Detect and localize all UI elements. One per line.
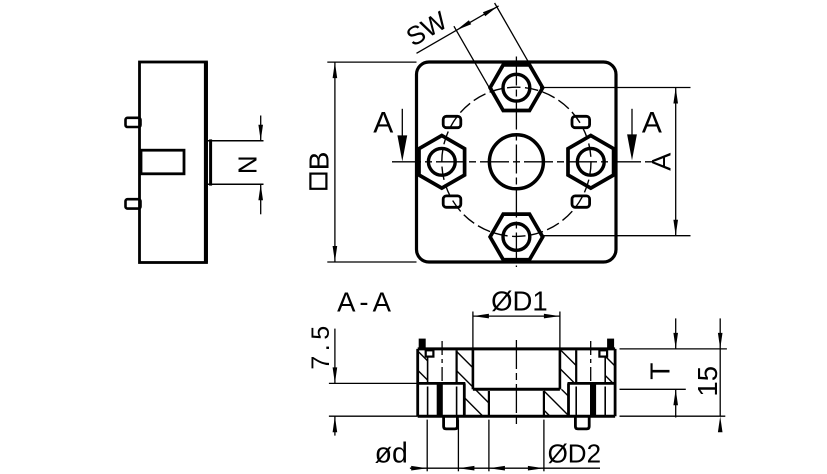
hex nut bottom hole xyxy=(503,224,530,251)
section: left hook notch xyxy=(426,350,434,356)
side view: boss top edge / extension line xyxy=(206,140,264,142)
dimension D2 extension right xyxy=(543,420,545,472)
hex nut right xyxy=(568,136,614,189)
hex nut right hole xyxy=(577,148,604,175)
dimension T line upper xyxy=(675,318,677,349)
section: right hole wall upper xyxy=(604,357,606,384)
hex nut left hole xyxy=(428,148,455,175)
section: left nut cut bar xyxy=(437,383,443,416)
dimension D1 extension right xyxy=(559,312,561,349)
section: left pocket wall xyxy=(463,383,466,416)
section: left hole centerline xyxy=(441,341,443,382)
dimension D2 arrow left xyxy=(489,466,505,471)
section: left outer edge xyxy=(416,349,419,416)
dimension 7.5 extension bottom xyxy=(329,415,418,417)
section: right hole centerline xyxy=(590,341,592,382)
dimension d extension left xyxy=(426,420,428,472)
svg-text:ØD2: ØD2 xyxy=(548,439,601,469)
svg-text:15: 15 xyxy=(692,366,723,397)
section marker left line xyxy=(401,109,403,137)
dimension N line upper xyxy=(260,116,262,141)
svg-text:A-A: A-A xyxy=(337,286,395,317)
section: left bottom boss xyxy=(444,416,458,429)
dimension SW arrow left xyxy=(456,20,471,30)
dimension D1 line xyxy=(473,315,560,317)
svg-text:A: A xyxy=(642,107,662,140)
hex nut left xyxy=(419,136,465,189)
dimension SW arrow right xyxy=(483,6,498,16)
section: cavity bottom xyxy=(473,388,560,391)
dimension 7.5 line upper xyxy=(334,329,336,384)
dimension SW extension line 1 xyxy=(454,26,489,87)
svg-text:N: N xyxy=(233,155,263,174)
hex nut bottom xyxy=(490,214,543,260)
side view: main body outline xyxy=(140,62,207,263)
front view: vertical centerline xyxy=(515,57,517,268)
dimension T arrow upper xyxy=(673,333,678,349)
dimension d arrow left xyxy=(411,466,427,471)
dimension 15 line xyxy=(719,318,721,416)
dimension 7.5 arrow lower xyxy=(333,416,338,432)
section: right hole wall lower b xyxy=(575,387,577,416)
section marker left arrowhead xyxy=(397,135,407,161)
dimension B line xyxy=(334,62,336,262)
svg-text:ød: ød xyxy=(375,437,408,469)
side view: notch rectangle xyxy=(141,150,184,174)
section: D2 bore right wall xyxy=(543,391,545,416)
section: right column wall xyxy=(575,350,577,383)
svg-text:ØD1: ØD1 xyxy=(491,286,548,317)
slot bottom-left xyxy=(443,196,461,207)
dimension 7.5 line lower xyxy=(334,416,336,435)
dimension d extension right xyxy=(457,420,459,472)
section: top face xyxy=(418,347,615,350)
side view: boss bottom edge / extension line xyxy=(206,183,264,185)
section: left hole wall lower a xyxy=(427,387,429,416)
section: right bottom boss xyxy=(575,416,589,429)
front view: square plate outline xyxy=(417,62,617,262)
section: right top tab xyxy=(608,340,613,349)
section: right outer edge xyxy=(614,349,617,416)
section marker right arrowhead xyxy=(627,134,637,160)
dimension d arrow right xyxy=(458,466,474,471)
section: main vertical centerline xyxy=(515,340,517,424)
dimension N arrow lower xyxy=(258,184,263,200)
dimension SW extension line 2 xyxy=(495,3,530,65)
dimension SW line xyxy=(417,6,499,53)
svg-text:T: T xyxy=(644,363,675,380)
dimension N line lower xyxy=(260,184,262,214)
dimension B label square symbol xyxy=(310,174,326,189)
side view: lower tab xyxy=(126,199,141,208)
section: right pocket top xyxy=(568,382,616,385)
dimension B arrow bottom xyxy=(333,246,338,262)
front view: central bore circle xyxy=(489,135,543,189)
dimension T/15 extension top xyxy=(620,348,727,350)
side view: upper tab xyxy=(126,118,141,127)
dimension B arrow top xyxy=(333,62,338,78)
section: left pocket top xyxy=(418,382,466,385)
section: left hole wall lower b xyxy=(456,387,458,416)
dimension 15 arrow upper xyxy=(718,333,723,349)
hex nut top hole xyxy=(503,74,530,101)
dimension 7.5 extension top xyxy=(329,382,418,384)
dimension D2 extension left xyxy=(488,420,490,472)
dimension A arrow top xyxy=(673,88,678,104)
dimension D1 extension left xyxy=(472,312,474,349)
dimension T extension bottom xyxy=(620,388,686,390)
section: left hole wall upper xyxy=(427,357,429,384)
slot top-right xyxy=(572,116,590,127)
dimension 15 arrow lower xyxy=(718,416,723,432)
section: right pocket wall xyxy=(567,383,570,416)
dimension B extension bottom xyxy=(327,261,416,263)
section: right hole wall lower a xyxy=(604,387,606,416)
section: cavity right wall xyxy=(559,349,562,389)
front view: dashed bolt circle xyxy=(442,87,591,236)
dimension D1 arrow left xyxy=(473,314,489,319)
section: left column wall xyxy=(456,350,458,383)
svg-text:7.5: 7.5 xyxy=(307,321,335,369)
dimension 15 extension bottom xyxy=(620,415,726,417)
section: cavity left wall xyxy=(472,349,475,389)
dimension N arrow upper xyxy=(258,125,263,141)
section: right hook notch xyxy=(599,350,607,356)
section: bottom face xyxy=(418,415,615,418)
dimension A arrow bottom xyxy=(673,220,678,236)
slot bottom-right xyxy=(572,196,590,207)
svg-text:B: B xyxy=(304,152,335,171)
dimension A line xyxy=(675,88,677,236)
dimension D2 arrow right xyxy=(528,466,544,471)
dimension T line lower xyxy=(675,389,677,417)
dimension T arrow lower xyxy=(673,389,678,405)
bottom dimension line xyxy=(410,467,600,469)
dimension D1 arrow right xyxy=(544,314,560,319)
hex nut top xyxy=(490,65,543,111)
dimension A extension top xyxy=(540,87,691,89)
dimension B extension top xyxy=(327,61,416,63)
dimension A extension bottom xyxy=(540,235,691,237)
section: left top tab xyxy=(420,340,425,349)
svg-text:A: A xyxy=(373,107,393,140)
side view: boss face xyxy=(209,139,212,185)
front view: horizontal centerline xyxy=(392,161,653,163)
side view: thick right edge xyxy=(204,62,208,263)
dimension 7.5 arrow upper xyxy=(333,367,338,383)
section marker right line xyxy=(631,109,633,136)
slot top-left xyxy=(443,116,461,127)
svg-text:A: A xyxy=(646,153,676,171)
section: D2 bore left wall xyxy=(488,391,490,416)
section: right nut cut bar xyxy=(590,383,596,416)
